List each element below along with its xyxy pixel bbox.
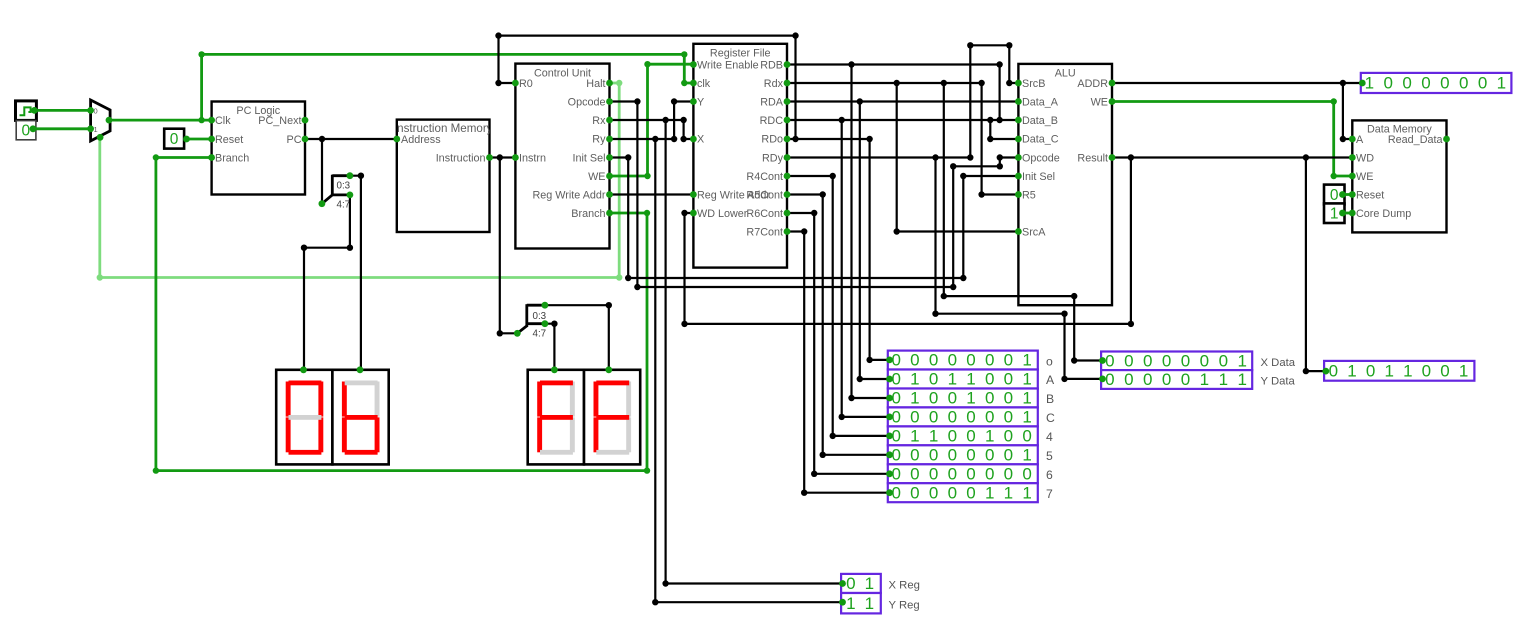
probe X Data — [1101, 351, 1296, 370]
wire PC branch to splitter S1 — [321, 139, 323, 204]
wire Rx branch to probe X Reg — [662, 120, 842, 587]
wire Rdx branch to probe X Data — [941, 83, 1103, 364]
subcircuit PC Logic — [212, 102, 305, 195]
svg-text:ADDR: ADDR — [1077, 78, 1108, 90]
svg-text:6: 6 — [1046, 468, 1053, 482]
subcircuit Instruction Memory — [394, 120, 493, 232]
wire RDA branch to probe row A — [857, 102, 890, 383]
svg-text:0: 0 — [985, 445, 994, 464]
svg-text:1: 1 — [1459, 361, 1468, 380]
svg-text:SrcA: SrcA — [1022, 227, 1046, 239]
svg-text:1: 1 — [929, 426, 938, 445]
svg-text:Reset: Reset — [1356, 190, 1384, 202]
svg-text:0: 0 — [1004, 389, 1013, 408]
svg-text:Y Reg: Y Reg — [889, 599, 920, 611]
wire Control Unit Ry to Register File Y — [610, 98, 694, 142]
wire Result branch to Register File WD Lower — [681, 158, 1134, 328]
subcircuit ALU — [1018, 64, 1112, 305]
svg-text:1: 1 — [910, 389, 919, 408]
wire R4Cont to probe row 4 — [787, 173, 890, 439]
svg-text:0: 0 — [1181, 351, 1190, 370]
probe register bank row 4 — [888, 426, 1053, 445]
svg-text:ALU: ALU — [1055, 68, 1076, 80]
svg-text:1: 1 — [1330, 206, 1339, 223]
svg-text:WE: WE — [1091, 97, 1108, 109]
svg-text:WD Lower: WD Lower — [697, 208, 748, 220]
svg-text:A: A — [1356, 134, 1364, 146]
svg-text:0: 0 — [966, 464, 975, 483]
svg-text:X Reg: X Reg — [889, 580, 920, 592]
svg-text:Address: Address — [401, 134, 441, 146]
subcircuit Control Unit — [515, 64, 609, 249]
svg-text:Reset: Reset — [215, 134, 243, 146]
wire constant 1 to Data Memory Core Dump — [1343, 212, 1353, 215]
splitter S2 0:3/4:7 on Instruction — [517, 304, 546, 339]
svg-text:0: 0 — [1402, 74, 1411, 93]
probe register bank row 7 — [888, 483, 1053, 502]
wire RDC branch to ALU Data_C — [987, 120, 1018, 142]
probe register bank row C — [888, 407, 1055, 426]
wire Result branch to probe Result — [1303, 158, 1326, 375]
wire Control Unit Reg Write Addr to Register File — [610, 193, 694, 195]
svg-text:R6Cont: R6Cont — [746, 208, 783, 220]
wire ALU WE to Data Memory WE — [1112, 98, 1352, 179]
wire RDC branch to probe row C — [839, 120, 890, 420]
svg-text:1: 1 — [966, 370, 975, 389]
wire RDB branch to probe row B — [848, 65, 889, 402]
wire Rdx to ALU R5 — [787, 80, 1018, 198]
svg-text:1: 1 — [1022, 408, 1031, 427]
svg-text:0: 0 — [1440, 361, 1449, 380]
wire RDo to R0 (top run) — [495, 32, 798, 139]
wire RDB to ALU Data_B — [787, 61, 1018, 123]
svg-text:R0: R0 — [519, 78, 533, 90]
svg-text:0: 0 — [966, 408, 975, 427]
svg-text:0: 0 — [1440, 74, 1449, 93]
svg-text:1: 1 — [1004, 483, 1013, 502]
wire constant 0 to Data Memory Reset — [1343, 193, 1353, 196]
svg-text:1: 1 — [1219, 370, 1228, 389]
wire Control Unit WE to Register File Write Enable — [610, 61, 694, 179]
svg-text:0: 0 — [910, 408, 919, 427]
svg-text:Instruction: Instruction — [436, 153, 486, 165]
wire splitter S2 4:7 to display DIG3 — [545, 321, 558, 370]
svg-text:o: o — [1046, 354, 1053, 368]
svg-text:Y: Y — [697, 97, 704, 109]
svg-text:0: 0 — [948, 445, 957, 464]
svg-text:B: B — [1046, 392, 1054, 406]
svg-text:0: 0 — [985, 389, 994, 408]
wire splitter S1 0:3 to display DIG2 — [350, 173, 364, 370]
svg-text:0: 0 — [985, 351, 994, 370]
probe register bank row 5 — [888, 445, 1053, 464]
svg-text:R7Cont: R7Cont — [746, 227, 783, 239]
svg-text:0: 0 — [1004, 464, 1013, 483]
svg-text:0: 0 — [985, 370, 994, 389]
svg-text:0: 0 — [1366, 361, 1375, 380]
wire Control Unit Rx to Register File X — [610, 117, 694, 142]
svg-text:0: 0 — [1004, 408, 1013, 427]
clock CLK1 — [16, 101, 37, 121]
svg-text:0: 0 — [1004, 445, 1013, 464]
svg-text:RDA: RDA — [760, 97, 784, 109]
svg-text:0: 0 — [966, 445, 975, 464]
svg-text:PC_Next: PC_Next — [258, 115, 301, 127]
input pin P0 value 0 — [16, 121, 36, 140]
svg-text:0: 0 — [1004, 426, 1013, 445]
svg-text:0: 0 — [948, 408, 957, 427]
svg-text:0: 0 — [1421, 74, 1430, 93]
svg-text:0: 0 — [1124, 351, 1133, 370]
svg-text:WE: WE — [1356, 171, 1373, 183]
svg-text:1: 1 — [966, 389, 975, 408]
svg-text:1: 1 — [865, 594, 874, 613]
svg-text:0: 0 — [929, 351, 938, 370]
wire constant 0 to PC Logic Reset — [185, 138, 212, 141]
svg-text:1: 1 — [1237, 351, 1246, 370]
probe register bank row 6 — [888, 464, 1053, 483]
svg-text:C: C — [1046, 411, 1055, 425]
wire Instruction to Control Unit Instrn — [490, 154, 516, 160]
wire Halt to mux select (light green) — [97, 80, 623, 281]
svg-text:1: 1 — [1365, 74, 1374, 93]
svg-text:Ry: Ry — [592, 134, 606, 146]
svg-text:0: 0 — [1022, 426, 1031, 445]
svg-text:0: 0 — [929, 389, 938, 408]
svg-text:1: 1 — [1347, 361, 1356, 380]
svg-text:Write Enable: Write Enable — [697, 60, 759, 72]
svg-text:0: 0 — [21, 122, 30, 139]
svg-text:1: 1 — [948, 370, 957, 389]
hex display DIG4 right (F) — [584, 370, 640, 465]
svg-text:1: 1 — [1200, 370, 1209, 389]
svg-text:Register File: Register File — [710, 47, 771, 59]
subcircuit Data Memory — [1352, 120, 1446, 232]
probe ADDR value 10000001 — [1361, 73, 1512, 93]
svg-text:Rdx: Rdx — [764, 78, 784, 90]
svg-text:Init Sel: Init Sel — [1022, 171, 1055, 183]
svg-text:1: 1 — [1497, 74, 1506, 93]
svg-text:0: 0 — [846, 574, 855, 593]
splitter S1 0:3/4:7 on PC — [322, 175, 351, 211]
svg-text:7: 7 — [1046, 487, 1053, 501]
constant 1 for Core Dump — [1324, 203, 1345, 223]
svg-text:0: 0 — [1004, 351, 1013, 370]
svg-text:1: 1 — [910, 370, 919, 389]
svg-text:0: 0 — [910, 445, 919, 464]
svg-text:1: 1 — [1022, 445, 1031, 464]
svg-text:Rx: Rx — [592, 115, 606, 127]
svg-text:1: 1 — [1022, 351, 1031, 370]
svg-text:0: 0 — [929, 464, 938, 483]
svg-text:R5Cont: R5Cont — [746, 190, 783, 202]
svg-text:0: 0 — [1181, 370, 1190, 389]
svg-text:Control Unit: Control Unit — [534, 67, 591, 79]
svg-text:1: 1 — [94, 125, 98, 134]
svg-text:Data_B: Data_B — [1022, 115, 1058, 127]
svg-text:Instrn: Instrn — [519, 153, 546, 165]
svg-text:Y Data: Y Data — [1261, 376, 1296, 388]
svg-text:4:7: 4:7 — [533, 329, 547, 340]
wire Control Unit Branch to PC Logic Branch — [153, 154, 651, 474]
probe Result value 01011001 — [1324, 361, 1474, 381]
svg-text:0: 0 — [929, 445, 938, 464]
svg-text:0: 0 — [929, 370, 938, 389]
svg-text:0: 0 — [966, 351, 975, 370]
svg-text:1: 1 — [1022, 370, 1031, 389]
svg-text:0: 0 — [1200, 351, 1209, 370]
hex display DIG3 left (F) — [528, 370, 584, 465]
svg-text:0:3: 0:3 — [337, 181, 351, 192]
wire RDo row to probe row 0 — [787, 136, 890, 363]
wire Control Unit Init Sel to ALU Init Sel — [610, 154, 1019, 281]
svg-text:Branch: Branch — [571, 208, 605, 220]
hex display DIG1 left (0) — [276, 370, 332, 465]
wire Rdx branch to ALU SrcA — [894, 83, 1019, 235]
svg-text:0: 0 — [1329, 361, 1338, 380]
svg-text:RDo: RDo — [761, 134, 783, 146]
wire R6Cont to probe row 6 — [787, 210, 890, 477]
svg-text:0: 0 — [948, 483, 957, 502]
svg-text:Opcode: Opcode — [568, 97, 606, 109]
svg-text:0: 0 — [1162, 351, 1171, 370]
svg-text:A: A — [1046, 373, 1055, 387]
svg-text:Result: Result — [1077, 153, 1108, 165]
svg-text:0: 0 — [1143, 351, 1152, 370]
wire RDC row to Data_B node — [787, 117, 1000, 123]
svg-text:0: 0 — [910, 483, 919, 502]
constant 0 for Reset — [164, 129, 184, 149]
wire mux output to PC Logic Clk and Register File clk — [109, 51, 693, 123]
svg-text:0: 0 — [1143, 370, 1152, 389]
svg-text:1: 1 — [1384, 361, 1393, 380]
svg-text:1: 1 — [1022, 389, 1031, 408]
svg-text:4: 4 — [1046, 430, 1053, 444]
wire ALU ADDR to probe and Data Memory A — [1112, 80, 1361, 142]
wire splitter S1 4:7 to display DIG1 — [301, 195, 353, 370]
wire R5Cont to probe row 5 — [787, 191, 890, 458]
svg-text:1: 1 — [1403, 361, 1412, 380]
svg-text:0: 0 — [1105, 370, 1114, 389]
wire pin 0 to mux input 1 — [33, 127, 91, 130]
svg-text:WD: WD — [1356, 153, 1374, 165]
wire RDy to ALU SrcB — [787, 42, 1018, 161]
wire RDy branch to probe Y Data — [932, 158, 1102, 383]
svg-text:0: 0 — [948, 426, 957, 445]
wire R7Cont to probe row 7 — [787, 228, 890, 496]
svg-text:0: 0 — [1330, 187, 1339, 204]
svg-text:0: 0 — [966, 483, 975, 502]
svg-text:0: 0 — [1478, 74, 1487, 93]
subcircuit Register File — [693, 44, 787, 268]
constant 0 for Data Memory Reset — [1324, 185, 1345, 205]
svg-text:SrcB: SrcB — [1022, 78, 1045, 90]
svg-text:5: 5 — [1046, 449, 1053, 463]
svg-text:1: 1 — [1237, 370, 1246, 389]
svg-text:Halt: Halt — [586, 78, 605, 90]
svg-text:0: 0 — [1384, 74, 1393, 93]
svg-text:0: 0 — [170, 131, 179, 148]
svg-text:1: 1 — [1022, 483, 1031, 502]
svg-text:Read_Data: Read_Data — [1388, 134, 1443, 146]
svg-text:Data_C: Data_C — [1022, 134, 1059, 146]
svg-text:1: 1 — [985, 483, 994, 502]
svg-text:0: 0 — [1022, 464, 1031, 483]
hex display DIG2 right (b) — [332, 370, 388, 465]
probe register bank row B — [888, 389, 1054, 408]
wire RDA to ALU Data_A — [787, 98, 1018, 104]
svg-text:0: 0 — [929, 408, 938, 427]
svg-text:PC: PC — [287, 134, 302, 146]
svg-text:0: 0 — [985, 464, 994, 483]
svg-text:Init Sel: Init Sel — [572, 153, 605, 165]
multiplexer MUX1 — [91, 100, 111, 141]
svg-text:X: X — [697, 134, 704, 146]
svg-text:RDB: RDB — [760, 60, 783, 72]
wire splitter S2 0:3 to display DIG4 — [545, 302, 612, 370]
wire PC to Instruction Memory Address — [305, 136, 397, 142]
wire Instruction branch to splitter S2 — [497, 158, 518, 337]
svg-text:0: 0 — [1105, 351, 1114, 370]
svg-text:1: 1 — [910, 426, 919, 445]
wire clock to mux input 0 — [34, 109, 90, 112]
svg-text:Clk: Clk — [215, 115, 231, 127]
svg-text:0: 0 — [1219, 351, 1228, 370]
svg-text:1: 1 — [985, 426, 994, 445]
svg-text:Data_A: Data_A — [1022, 97, 1059, 109]
svg-text:WE: WE — [588, 171, 605, 183]
svg-text:1: 1 — [846, 594, 855, 613]
svg-text:0: 0 — [966, 426, 975, 445]
wire ALU Result to Data Memory WD — [1112, 154, 1352, 160]
probe register bank row A — [888, 370, 1055, 389]
svg-text:4:7: 4:7 — [337, 200, 351, 211]
wire Control Unit Opcode to ALU Opcode — [610, 98, 1019, 290]
svg-text:1: 1 — [865, 574, 874, 593]
svg-text:R4Cont: R4Cont — [746, 171, 783, 183]
probe register bank row 0 — [888, 351, 1053, 370]
svg-text:0: 0 — [929, 483, 938, 502]
svg-text:0: 0 — [985, 408, 994, 427]
svg-text:RDy: RDy — [762, 153, 784, 165]
svg-text:0: 0 — [94, 106, 98, 115]
probe X Reg — [841, 574, 920, 593]
svg-text:R5: R5 — [1022, 190, 1036, 202]
probe Y Data — [1101, 370, 1295, 389]
probe Y Reg — [841, 593, 920, 613]
svg-text:clk: clk — [697, 78, 711, 90]
svg-text:0: 0 — [948, 464, 957, 483]
svg-text:0: 0 — [910, 351, 919, 370]
svg-text:0: 0 — [1422, 361, 1431, 380]
svg-text:Opcode: Opcode — [1022, 153, 1060, 165]
svg-text:0: 0 — [1124, 370, 1133, 389]
svg-text:0: 0 — [1004, 370, 1013, 389]
svg-text:0: 0 — [948, 389, 957, 408]
svg-text:X Data: X Data — [1261, 357, 1296, 369]
svg-text:0: 0 — [910, 464, 919, 483]
svg-text:Reg Write Addr: Reg Write Addr — [532, 190, 605, 202]
svg-text:0: 0 — [1459, 74, 1468, 93]
svg-text:0: 0 — [1162, 370, 1171, 389]
svg-text:Core Dump: Core Dump — [1356, 208, 1411, 220]
svg-text:0: 0 — [948, 351, 957, 370]
wire Ry branch to probe Y Reg — [652, 139, 842, 605]
svg-text:Branch: Branch — [215, 153, 249, 165]
svg-text:RDC: RDC — [760, 115, 784, 127]
